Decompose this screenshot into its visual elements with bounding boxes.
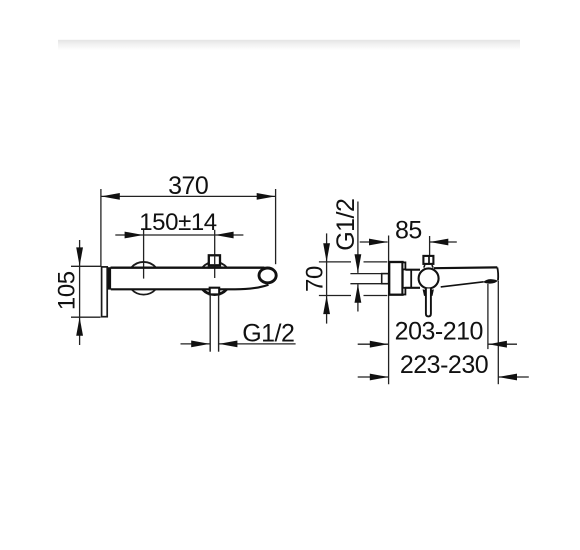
dim 70 arrow bottom [323, 296, 330, 315]
header shadow band [58, 40, 520, 51]
dim G1/2 front line left [181, 343, 210, 345]
dim 223-230 line left [358, 376, 389, 378]
spout side bottom edge [441, 282, 484, 287]
nut under right circle [210, 288, 220, 295]
svg-text:223-230: 223-230 [400, 351, 488, 379]
spout body top edge [111, 267, 265, 269]
dim 223-230 extension right [497, 281, 499, 384]
right valve circle bottom arc (bold) [203, 289, 227, 294]
right valve circle top arc [202, 262, 227, 268]
dim 203-210 extension right [487, 284, 489, 349]
knob neck left [424, 265, 425, 268]
body tube top edge [405, 269, 420, 271]
dim 203-210 arrow right [488, 341, 507, 348]
body tube ring edge [410, 270, 412, 288]
outlet pipe front left line [209, 295, 211, 352]
dim 105 arrow bottom [76, 317, 83, 336]
dim 85 line left [360, 241, 388, 243]
body tube bottom edge [405, 287, 420, 289]
svg-text:150±14: 150±14 [139, 209, 217, 236]
left valve circle top arc [131, 262, 156, 268]
dim 85 extension right [429, 236, 431, 256]
svg-text:203-210: 203-210 [395, 317, 483, 345]
dim 150 center line left [143, 230, 145, 279]
knob front [209, 255, 220, 265]
handle shaft [426, 289, 431, 317]
left valve circle bottom arc [132, 289, 156, 294]
handle hub wedge right [431, 289, 434, 296]
dim 70 arrow top [323, 243, 330, 262]
svg-text:370: 370 [168, 172, 208, 200]
wall plate side [389, 262, 402, 295]
wall plate collar tab bottom [403, 288, 406, 295]
dim 85 arrow right [430, 239, 449, 246]
dim 150±14 line [115, 234, 243, 236]
pipe extension bottom [350, 283, 381, 285]
knob front centerline overlay [214, 255, 216, 265]
body left bold bar [108, 267, 112, 289]
svg-text:G1/2: G1/2 [242, 320, 294, 348]
dim 70 vertical line [326, 233, 328, 323]
wall flange front [102, 267, 108, 317]
dim G1/2 front arrow left [191, 341, 210, 348]
dim G1/2 front line right [219, 343, 296, 345]
dim 203-210 arrow left [370, 341, 389, 348]
spout body bottom edge [111, 285, 269, 290]
dim 150 center line right [214, 230, 216, 278]
cartridge ball [419, 268, 439, 288]
svg-text:105: 105 [54, 271, 81, 310]
dim G1/2 side arrow up [355, 284, 362, 303]
dim G1/2 side arrow down [355, 254, 362, 273]
handle hub wedge left [423, 289, 426, 296]
dim 105 extension top [71, 265, 101, 267]
knob side mid line [428, 256, 430, 264]
dim 105 extension bottom [71, 316, 101, 318]
dim 203-210 line right [488, 343, 517, 345]
spout side outlet blob [483, 279, 498, 283]
pipe extension top [350, 273, 381, 275]
svg-text:G1/2: G1/2 [332, 199, 360, 251]
dim 370 arrow right [257, 193, 276, 200]
dim 223-230 arrow left [370, 374, 389, 381]
dim 85 arrow left [369, 239, 388, 246]
dim 223-230 arrow right [498, 374, 517, 381]
knob neck right [432, 265, 433, 268]
dim 203-210 line left [358, 343, 389, 345]
dim G1/2 side vertical line bottom [357, 284, 359, 311]
spout side top edge [434, 266, 498, 269]
dim 85 line right [430, 241, 457, 243]
dim 70 extension bottom [319, 295, 387, 297]
dim 150 arrow left [125, 232, 144, 239]
dim G1/2 front arrow right [219, 341, 238, 348]
dim 150 arrow right [215, 232, 234, 239]
wall line / left extension [388, 236, 390, 385]
wall plate collar tab top [403, 262, 406, 269]
dim 105 arrow top [76, 247, 83, 266]
dim 370 extension line right [275, 189, 277, 264]
spout aerator tip [259, 268, 276, 283]
dim 70 extension top [319, 261, 387, 263]
dim 223-230 line right [498, 376, 528, 378]
dim 370 extension line left [100, 189, 102, 267]
supply pipe stub [382, 274, 389, 284]
svg-text:70: 70 [302, 266, 329, 292]
outlet pipe front right line [218, 295, 220, 352]
dim 370 arrow left [101, 193, 120, 200]
svg-text:85: 85 [395, 217, 422, 245]
knob side [423, 256, 433, 264]
spout side end cap [496, 267, 499, 280]
dim G1/2 side vertical line top [357, 202, 359, 273]
dim 105 line [79, 240, 81, 345]
dim 370 line [101, 195, 276, 197]
